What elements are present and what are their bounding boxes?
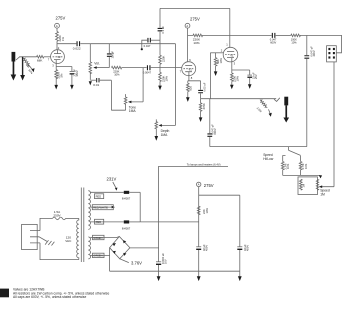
label RED lower bbox=[95, 219, 104, 224]
wire tremolo node line bbox=[201, 98, 277, 100]
svg-text:0.0047: 0.0047 bbox=[143, 70, 152, 74]
resistor 220K series bbox=[112, 66, 122, 76]
scan artifact bar bbox=[0, 289, 9, 298]
svg-text:10%: 10% bbox=[219, 58, 223, 64]
resistor 68K grid stopper bbox=[37, 56, 44, 63]
triode V1 (oscillator b) bbox=[221, 43, 238, 66]
wire plate drop V1b bbox=[229, 8, 231, 47]
triode V2 bbox=[48, 46, 65, 67]
svg-text:10%: 10% bbox=[193, 41, 199, 45]
ground heater cap bbox=[157, 271, 161, 281]
capacitor 100pF bright bbox=[107, 44, 115, 68]
svg-text:820: 820 bbox=[189, 86, 193, 91]
svg-text:10%: 10% bbox=[291, 40, 297, 44]
node A 275V (oscillator supply) bbox=[185, 17, 200, 36]
svg-text:Hi/Low: Hi/Low bbox=[263, 157, 274, 161]
resistor 220K divider lower bbox=[159, 72, 169, 82]
wire green upper bbox=[90, 237, 119, 238]
potentiometer Depth 1MA bbox=[155, 119, 170, 140]
wire plate line to depth feed bbox=[90, 43, 175, 45]
ground psu cap2 bbox=[238, 271, 242, 281]
svg-text:A: A bbox=[186, 24, 188, 28]
wire cathode V2 bbox=[56, 63, 72, 71]
svg-text:RED/WHITE: RED/WHITE bbox=[93, 206, 108, 210]
resistor 1M grid leak (diagonal) bbox=[22, 57, 34, 75]
label RED upper bbox=[95, 194, 104, 199]
wire B+ to filter bbox=[140, 221, 199, 223]
wire 68K to grid bbox=[44, 56, 51, 58]
diode IN4007 upper bbox=[122, 191, 140, 201]
svg-text:1%: 1% bbox=[61, 37, 65, 41]
label 231V with pointer bbox=[107, 177, 118, 191]
svg-text:GREEN: GREEN bbox=[93, 254, 102, 258]
svg-text:275V: 275V bbox=[204, 183, 214, 188]
svg-text:0.047: 0.047 bbox=[144, 44, 151, 48]
svg-text:10%: 10% bbox=[205, 208, 209, 214]
wire top line to depth pot bbox=[162, 44, 176, 126]
resistor 2.2M speed low bbox=[281, 162, 290, 176]
wire plate V1a bbox=[187, 35, 189, 61]
resistor 220K divider upper bbox=[159, 55, 166, 64]
svg-text:V1: V1 bbox=[189, 67, 193, 71]
diode IN4007 lower bbox=[122, 220, 140, 230]
wire HT bottom tap bbox=[90, 221, 124, 223]
wire grid drop V1b bbox=[209, 53, 211, 99]
svg-text:5%: 5% bbox=[59, 73, 63, 77]
wire HT top tap bbox=[90, 191, 124, 193]
svg-text:VAC: VAC bbox=[65, 239, 72, 243]
svg-text:Vol.: Vol. bbox=[94, 61, 100, 65]
wire series line bbox=[122, 67, 147, 69]
capacitor 0.047 stub with terminal bbox=[141, 38, 160, 50]
resistor 220K plate load V2 bbox=[56, 32, 65, 42]
resistor 100K 10% bbox=[291, 34, 307, 44]
svg-text:450V: 450V bbox=[205, 245, 209, 251]
capacitor 10000uF 10V bbox=[156, 253, 168, 272]
svg-text:1MA: 1MA bbox=[161, 133, 169, 137]
label GREEN lower bbox=[93, 253, 105, 258]
svg-text:IN4007: IN4007 bbox=[122, 226, 131, 230]
wire jack tip to 68K bbox=[19, 56, 36, 58]
svg-text:68K: 68K bbox=[37, 59, 43, 63]
capacitor 32uF 450V second bbox=[237, 244, 249, 271]
ground Vol bottom bbox=[89, 81, 92, 85]
potentiometer Speed 1M bbox=[298, 177, 330, 197]
wire divider node bbox=[159, 64, 161, 72]
wire A to plate resistor bbox=[56, 28, 58, 31]
capacitor 0.047uF 400V osc chain bbox=[304, 35, 316, 146]
bridge rectifier bbox=[110, 237, 130, 259]
svg-text:RED: RED bbox=[96, 220, 102, 224]
resistor 56K grid leak V1b bbox=[214, 53, 223, 76]
resistor 4.7M speed high bbox=[299, 162, 308, 176]
node A 275V (input stage supply) bbox=[55, 16, 66, 29]
switch Speed Hi/Low bbox=[263, 147, 300, 162]
svg-text:1M: 1M bbox=[320, 193, 325, 197]
svg-text:GREEN: GREEN bbox=[93, 236, 102, 240]
wire connector to speed wiper bbox=[322, 62, 334, 187]
resistor 2.2M diagonal at jack bbox=[256, 99, 272, 117]
svg-text:1MA: 1MA bbox=[129, 109, 137, 113]
wire cathode V1b bbox=[232, 62, 250, 75]
svg-text:IN4007: IN4007 bbox=[122, 197, 131, 201]
wire psu node bbox=[199, 187, 240, 247]
svg-text:10%: 10% bbox=[164, 76, 168, 82]
node A 275V (psu) bbox=[197, 182, 214, 188]
wire diode bus bbox=[139, 192, 141, 222]
svg-text:250V: 250V bbox=[53, 214, 61, 218]
ground cathode V1b bbox=[230, 81, 234, 89]
fuse 1.5A 250V bbox=[40, 210, 79, 231]
svg-text:350V: 350V bbox=[75, 70, 79, 76]
resistor 2200 cathode V1b bbox=[231, 73, 240, 82]
wire cathode V1a bbox=[188, 76, 201, 84]
resistor 470K to ground bbox=[199, 99, 206, 122]
svg-text:470K: 470K bbox=[202, 103, 206, 109]
wire plate node bbox=[56, 41, 58, 50]
svg-text:RED: RED bbox=[96, 195, 102, 199]
wire bridge minus to bus bbox=[109, 248, 111, 272]
svg-text:400V: 400V bbox=[312, 50, 316, 56]
capacitor 32uF 450V first bbox=[196, 244, 208, 271]
wire tip junction to ground bbox=[20, 57, 25, 81]
svg-text:0.1 uF: 0.1 uF bbox=[161, 26, 165, 34]
transformer T1 primary bbox=[65, 218, 79, 259]
resistor 220R cathode V2 bbox=[55, 70, 63, 79]
svg-text:All caps are 600V, +/- 5%, unl: All caps are 600V, +/- 5%, unless stated… bbox=[13, 295, 86, 299]
svg-text:V1: V1 bbox=[230, 53, 234, 57]
ground divider bbox=[158, 81, 162, 90]
svg-text:0.022: 0.022 bbox=[73, 47, 81, 51]
svg-text:100pF: 100pF bbox=[111, 51, 115, 59]
wire speed resistors to pot bbox=[283, 175, 322, 178]
wire heater rail bbox=[159, 163, 228, 262]
ground cathode V1a bbox=[186, 92, 190, 102]
svg-text:0.01: 0.01 bbox=[93, 83, 99, 87]
capacitor 0.047 600V coupling top bbox=[230, 33, 291, 44]
svg-text:0.05 uF: 0.05 uF bbox=[202, 82, 206, 91]
potentiometer Tone 1MA bbox=[124, 68, 143, 114]
svg-text:10%: 10% bbox=[235, 76, 239, 82]
wire top feedback bus bbox=[160, 7, 230, 9]
label RED/WHITE bbox=[92, 205, 113, 210]
wire bridge plus bbox=[130, 247, 159, 249]
svg-text:A: A bbox=[56, 24, 58, 28]
svg-text:220K: 220K bbox=[161, 56, 165, 62]
svg-text:450V: 450V bbox=[246, 245, 250, 251]
connector P1 bbox=[327, 46, 337, 62]
transformer T1 secondary LT bbox=[88, 237, 90, 259]
wire ground bus bbox=[110, 270, 240, 272]
wire mains return bbox=[40, 243, 79, 260]
wire HT center tap bbox=[90, 206, 115, 209]
svg-text:600V: 600V bbox=[213, 128, 217, 134]
svg-text:10V: 10V bbox=[164, 259, 168, 264]
svg-text:10%: 10% bbox=[286, 163, 290, 169]
svg-text:1M: 1M bbox=[302, 184, 306, 188]
svg-text:3.76V: 3.76V bbox=[131, 261, 142, 266]
resistor 820 cathode V1a bbox=[187, 83, 193, 91]
capacitor 0.0047 bbox=[143, 65, 182, 74]
svg-text:10%: 10% bbox=[304, 163, 308, 169]
ground psu cap1 bbox=[197, 271, 201, 281]
potentiometer Vol. bbox=[89, 44, 109, 80]
wire grid line V1b bbox=[210, 52, 223, 54]
svg-text:25V: 25V bbox=[254, 74, 258, 79]
mains plug bbox=[22, 224, 55, 249]
jack footswitch bbox=[274, 97, 289, 123]
input jack J1 bbox=[11, 52, 20, 81]
svg-text:V2: V2 bbox=[57, 55, 61, 59]
ground V2 cathode bbox=[54, 78, 58, 89]
resistor 22K smoothing bbox=[197, 206, 209, 214]
capacitor 0.05uF osc bbox=[198, 81, 206, 99]
resistor 220K 10% plate load V1a bbox=[188, 34, 231, 45]
svg-text:600V: 600V bbox=[270, 40, 276, 44]
svg-text:231V: 231V bbox=[107, 177, 117, 182]
capacitor 0.047uF 600V osc chain bbox=[207, 99, 217, 147]
svg-text:To lamps and heaters (6.4V): To lamps and heaters (6.4V) bbox=[187, 163, 221, 167]
label 3.76V with pointer bbox=[120, 259, 142, 266]
wire osc chain bottom bbox=[210, 146, 307, 148]
svg-text:275V: 275V bbox=[56, 16, 66, 21]
svg-text:275V: 275V bbox=[190, 17, 200, 22]
wire green lower bbox=[90, 254, 109, 256]
svg-text:A: A bbox=[198, 183, 200, 187]
svg-text:10%: 10% bbox=[114, 73, 120, 77]
capacitor 2.2uF cathode bypass bbox=[70, 69, 80, 90]
transformer T1 core bbox=[81, 188, 84, 263]
capacitor 22uF cathode bypass V1b bbox=[247, 72, 258, 89]
triode V1 (oscillator a) bbox=[180, 58, 196, 80]
label GREEN upper bbox=[93, 235, 105, 240]
notes text bbox=[13, 288, 109, 300]
capacitor 0.1uF feedback bbox=[158, 8, 166, 55]
capacitor 0.01 to tone bbox=[90, 78, 125, 110]
capacitor 0.022 coupling bbox=[57, 41, 90, 51]
wire to connector bbox=[307, 35, 342, 52]
transformer T1 secondary HT bbox=[88, 191, 90, 230]
